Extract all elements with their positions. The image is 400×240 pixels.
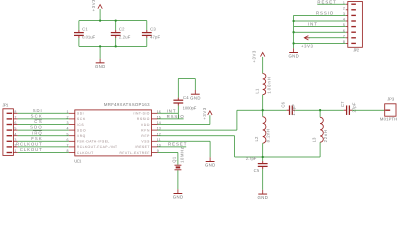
svg-text:INT: INT — [308, 22, 317, 27]
inductor L2 8.2nH — [254, 117, 271, 144]
wire JP2 pin 6 — [294, 31, 346, 33]
svg-text:RFXTL-EXTREF: RFXTL-EXTREF — [120, 151, 150, 155]
svg-text:SDO: SDO — [30, 125, 42, 130]
net RCLKOUT wire JP1 to UC1 — [16, 142, 69, 147]
svg-text:SCK: SCK — [77, 117, 86, 121]
svg-text:MRF49XATSSOP163: MRF49XATSSOP163 — [104, 102, 150, 107]
ground (JP2) — [288, 48, 298, 58]
wire L1 to top rail — [262, 95, 264, 111]
svg-text:RSSIO: RSSIO — [316, 11, 334, 16]
node top rail at L3 — [319, 109, 321, 111]
wire decoupling top rail — [79, 20, 147, 22]
svg-text:GND: GND — [190, 95, 200, 100]
svg-text:2: 2 — [67, 116, 69, 120]
net SDO wire JP1 to UC1 — [18, 125, 69, 130]
UC1 left pin names — [77, 112, 117, 155]
supply +3V3 arrow at JP2 pin 7 — [301, 36, 314, 49]
node on top rail — [99, 19, 101, 21]
svg-text:JP3: JP3 — [387, 97, 395, 102]
svg-text:Q1: Q1 — [171, 156, 176, 163]
svg-text:7: 7 — [14, 116, 16, 120]
svg-text:5: 5 — [67, 132, 69, 136]
svg-text:6: 6 — [14, 121, 16, 125]
svg-text:1: 1 — [14, 149, 16, 153]
wire crystal to ground — [177, 170, 179, 189]
UC1 right pin numbers 16-9 — [157, 110, 161, 153]
wire decoupling bottom rail — [79, 45, 147, 47]
wire JP2 pin 8 — [294, 42, 346, 44]
net RESET wire from pin 10 — [158, 142, 187, 147]
supply +3V3 (VDD) — [202, 107, 212, 120]
svg-text:JP2: JP2 — [353, 48, 360, 53]
ground (Q1) — [173, 189, 183, 199]
capacitor C3 — [142, 21, 161, 47]
svg-text:1.2pF: 1.2pF — [291, 104, 296, 116]
svg-text:8.2nH: 8.2nH — [266, 129, 271, 142]
svg-text:2.7pF: 2.7pF — [246, 156, 257, 161]
JP2 pin numbers — [343, 1, 345, 44]
svg-text:+3V3: +3V3 — [252, 50, 257, 63]
svg-text:C3: C3 — [150, 26, 156, 31]
svg-text:22nH: 22nH — [323, 130, 328, 142]
svg-text:RCLKOUT-FCAP-/INT: RCLKOUT-FCAP-/INT — [77, 145, 117, 149]
svg-text:/INT-DIO: /INT-DIO — [133, 112, 149, 116]
svg-text:4: 4 — [67, 127, 69, 131]
ground (VSS) — [205, 157, 215, 167]
svg-text:RFN: RFN — [141, 128, 150, 132]
net RFN wire from pin 13 — [158, 110, 237, 130]
crystal Q1 10MHz — [171, 147, 184, 170]
inductor L1 100nH — [255, 74, 272, 95]
svg-text:RESET: RESET — [317, 0, 336, 4]
net RSSIO wire to JP2 pin 3 — [294, 11, 346, 16]
svg-text:C5: C5 — [254, 168, 260, 173]
ground (C5) — [258, 190, 268, 200]
svg-text:GND: GND — [258, 195, 268, 200]
svg-text:FSK-DATA-/FSEL: FSK-DATA-/FSEL — [77, 140, 110, 144]
svg-text:27pF: 27pF — [352, 102, 357, 112]
wire top rail right segment to JP3 — [352, 109, 384, 111]
svg-text:2.2uF: 2.2uF — [119, 34, 131, 39]
svg-text:2: 2 — [343, 6, 345, 10]
svg-text:L3: L3 — [311, 137, 316, 143]
wire JP2 pin 7 — [309, 37, 346, 39]
UC1 right pin names — [120, 112, 151, 155]
svg-text:RESET: RESET — [168, 142, 187, 147]
svg-text:GND: GND — [95, 64, 105, 69]
svg-text:RCLKOUT: RCLKOUT — [16, 142, 42, 147]
svg-text:C1: C1 — [82, 26, 88, 31]
svg-text:+3V3: +3V3 — [91, 0, 96, 11]
capacitor C2 — [111, 21, 131, 47]
svg-text:SCK: SCK — [31, 114, 42, 119]
node bottom rail at C5 — [262, 156, 264, 158]
wire ground trunk — [293, 15, 295, 48]
svg-text:47pF: 47pF — [150, 34, 160, 39]
wire to ground — [99, 46, 101, 58]
svg-text:0.01uF: 0.01uF — [82, 34, 95, 39]
svg-text:SDI: SDI — [77, 112, 84, 116]
svg-text:IRQ: IRQ — [32, 130, 42, 135]
svg-text:RFP: RFP — [141, 134, 150, 138]
net RFXTL wire from pin 9 to crystal — [158, 153, 178, 165]
net RFP wire from pin 12 — [158, 136, 235, 157]
connector JP3 antenna — [380, 97, 397, 122]
wire bottom rail — [235, 156, 321, 158]
svg-text:8: 8 — [14, 110, 16, 114]
svg-text:UC1: UC1 — [74, 159, 82, 164]
connector JP2 — [346, 2, 363, 53]
svg-text:GND: GND — [173, 195, 183, 200]
svg-text:CLKOUT: CLKOUT — [77, 151, 93, 155]
wire top rail left segment — [237, 109, 287, 111]
connector JP1 — [2, 103, 17, 156]
svg-text:8: 8 — [67, 149, 69, 153]
wire L3 to bottom rail — [319, 142, 321, 157]
svg-text:FSK: FSK — [31, 136, 42, 141]
svg-text:C2: C2 — [119, 26, 125, 31]
svg-text:RSSIO: RSSIO — [167, 114, 185, 119]
net CLKOUT wire JP1 to UC1 — [18, 147, 69, 152]
capacitor C6 1.2pF — [280, 101, 296, 115]
net INT wire from pin 16 — [158, 108, 179, 113]
net FSK wire JP1 to UC1 — [18, 136, 69, 141]
supply +3V3 (L1) — [252, 50, 265, 63]
wire L3 top — [319, 110, 321, 117]
wire +3V3 stem — [99, 9, 101, 21]
net RESET wire to JP2 pin 1 — [317, 0, 346, 4]
capacitor C5 2.7pF — [246, 156, 268, 190]
svg-text:6: 6 — [67, 138, 69, 142]
wire C4 to ground — [178, 79, 195, 91]
svg-text:GND: GND — [288, 54, 298, 59]
svg-text:10MHz: 10MHz — [179, 147, 184, 163]
capacitor C4 — [173, 79, 196, 119]
svg-text:C4: C4 — [183, 95, 189, 100]
capacitor C1 — [74, 21, 96, 47]
JP1 pin numbers — [14, 110, 16, 153]
svg-text:SDO: SDO — [77, 128, 86, 132]
wire JP2 pin 4 — [294, 20, 346, 22]
svg-text:L1: L1 — [255, 88, 260, 94]
svg-text:1: 1 — [67, 110, 69, 114]
svg-text:C6: C6 — [280, 101, 285, 107]
wire +3V3 to L1 — [262, 57, 264, 74]
svg-text:VDD: VDD — [141, 123, 150, 127]
net IRQ wire JP1 to UC1 — [18, 130, 69, 135]
svg-text:C7: C7 — [340, 101, 345, 107]
svg-text:/CS: /CS — [77, 123, 84, 127]
net RSSIO wire from pin 15 — [158, 114, 185, 119]
svg-text:/IRQ: /IRQ — [77, 134, 86, 138]
svg-text:4: 4 — [14, 132, 16, 136]
capacitor C7 27pF — [340, 101, 356, 115]
IC UC1 MRF49XA — [69, 102, 158, 164]
svg-text:L2: L2 — [254, 136, 259, 142]
svg-text:+3V3: +3V3 — [202, 107, 207, 120]
svg-text:M01PTH: M01PTH — [380, 116, 397, 121]
svg-text:GND: GND — [205, 163, 215, 168]
inductor L3 22nH — [311, 117, 328, 142]
svg-text:CS: CS — [34, 119, 42, 124]
net SCK wire JP1 to UC1 — [18, 114, 69, 119]
svg-text:7: 7 — [67, 144, 69, 148]
svg-text:CLKOUT: CLKOUT — [20, 147, 42, 152]
net CS wire JP1 to UC1 — [18, 119, 69, 124]
svg-text:+3V3: +3V3 — [301, 43, 314, 48]
svg-text:RSSIO: RSSIO — [137, 117, 150, 121]
node rail junction L1/L2 — [262, 109, 264, 111]
svg-text:1000pF: 1000pF — [183, 106, 197, 111]
svg-text:JP1: JP1 — [2, 103, 9, 108]
ground (decoupling rail) — [95, 59, 105, 69]
net VDD wire from pin 14 to +3V3 — [158, 115, 210, 124]
net VSS wire from pin 11 to ground — [158, 141, 211, 157]
UC1 left pin numbers 1-8 — [67, 110, 69, 153]
wire rail to L2 — [262, 110, 264, 117]
svg-text:SDI: SDI — [33, 108, 42, 113]
svg-text:/RESET: /RESET — [135, 145, 150, 149]
net INT wire to JP2 pin 5 — [294, 22, 346, 27]
ground (C4) — [190, 90, 200, 100]
svg-text:INT: INT — [167, 108, 176, 113]
supply +3V3 (decoupling rail) — [91, 0, 102, 11]
svg-text:3: 3 — [67, 121, 69, 125]
wire L2 to bottom rail — [262, 143, 264, 157]
wire top rail middle segment — [295, 109, 344, 111]
junction dots on ground trunk — [292, 20, 294, 45]
svg-text:5: 5 — [14, 127, 16, 131]
svg-text:VSS: VSS — [141, 140, 150, 144]
net SDI wire JP1 to UC1 — [18, 108, 69, 113]
svg-text:100nH: 100nH — [266, 77, 271, 94]
node on bottom rail — [99, 45, 101, 47]
